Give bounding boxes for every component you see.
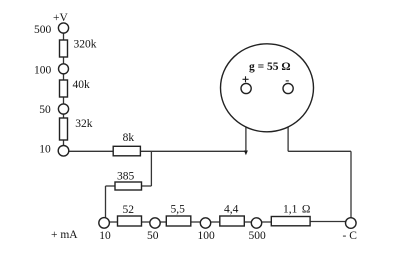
svg-text:320k: 320k — [74, 39, 97, 51]
svg-text:52: 52 — [123, 204, 135, 216]
svg-text:- C: - C — [343, 230, 358, 242]
svg-text:+ mA: + mA — [51, 229, 78, 241]
svg-text:8k: 8k — [123, 132, 135, 144]
svg-text:385: 385 — [117, 170, 135, 182]
svg-text:1,1Ω: 1,1Ω — [283, 204, 310, 216]
svg-text:10: 10 — [39, 144, 51, 156]
svg-text:500: 500 — [249, 230, 267, 242]
svg-text:40k: 40k — [73, 79, 91, 91]
svg-text:+V: +V — [53, 12, 68, 24]
svg-text:100: 100 — [34, 65, 52, 77]
svg-text:100: 100 — [198, 230, 216, 242]
svg-text:50: 50 — [147, 230, 159, 242]
svg-text:5,5: 5,5 — [171, 204, 186, 216]
svg-text:g = 55 Ω: g = 55 Ω — [249, 61, 291, 73]
svg-text:10: 10 — [99, 230, 111, 242]
svg-text:4,4: 4,4 — [224, 204, 239, 216]
svg-text:500: 500 — [34, 24, 52, 36]
svg-text:50: 50 — [39, 104, 51, 116]
svg-text:32k: 32k — [75, 118, 93, 130]
